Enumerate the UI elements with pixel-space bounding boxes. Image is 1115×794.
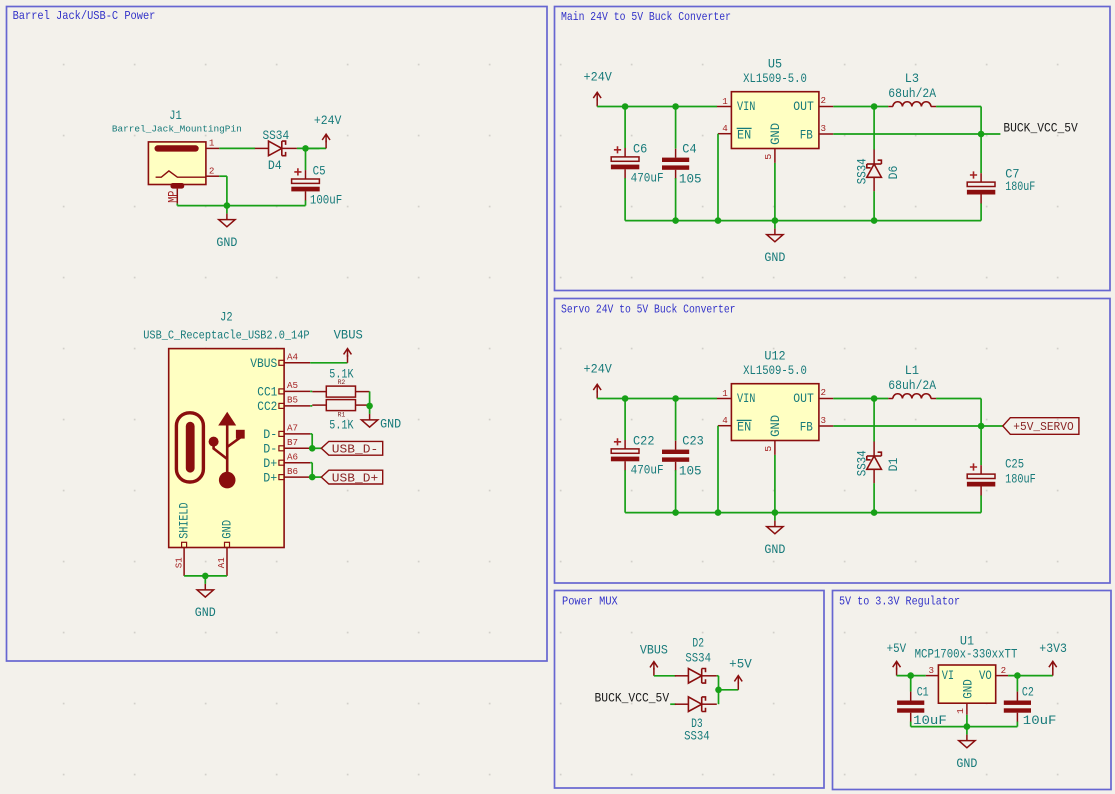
- junction D+: [309, 474, 316, 481]
- svg-text:+24V: +24V: [584, 362, 613, 376]
- J2 pin S1 SHIELD: [182, 542, 187, 547]
- wire inductor to output corner: [936, 106, 981, 108]
- svg-text:2: 2: [1001, 665, 1007, 676]
- svg-text:B5: B5: [287, 395, 298, 406]
- bottom rail reg: [911, 726, 1018, 728]
- svg-text:GND: GND: [216, 236, 237, 250]
- junction C1 top: [907, 672, 914, 679]
- U5 pin 4 EN: [718, 133, 731, 135]
- junction FB/output: [978, 131, 985, 138]
- junction diode D1 bottom: [871, 509, 878, 516]
- junction +5V mux: [715, 687, 722, 694]
- svg-text:MCP1700x-330xxTT: MCP1700x-330xxTT: [915, 648, 1018, 662]
- svg-text:180uF: 180uF: [1005, 180, 1035, 194]
- svg-text:A1: A1: [216, 557, 227, 568]
- wire FB to +5V_SERVO label: [981, 425, 1003, 427]
- svg-text:1: 1: [722, 388, 728, 399]
- svg-text:+5V_SERVO: +5V_SERVO: [1013, 420, 1073, 434]
- svg-text:68uh/2A: 68uh/2A: [888, 379, 936, 393]
- power symbol +24V U5 section: [596, 99, 598, 107]
- svg-text:EN: EN: [737, 421, 751, 435]
- svg-text:+3V3: +3V3: [1039, 642, 1067, 656]
- junction FB/output: [978, 423, 985, 430]
- wire S1-A1 join: [184, 575, 227, 577]
- J2 pin A1 GND: [225, 542, 230, 547]
- svg-text:68uh/2A: 68uh/2A: [888, 87, 936, 101]
- capacitor C2 10uF: [1016, 676, 1018, 692]
- svg-text:4: 4: [722, 123, 728, 134]
- svg-text:XL1509-5.0: XL1509-5.0: [743, 72, 807, 86]
- J1 pin 2: [206, 175, 219, 177]
- wire A7 corner: [310, 433, 312, 435]
- svg-text:U5: U5: [768, 58, 782, 72]
- capacitor C4 105: [675, 107, 677, 149]
- section box: Main 24V to 5V Buck Converter: [555, 7, 1111, 291]
- svg-text:105: 105: [679, 465, 702, 479]
- power symbol VBUS: [347, 355, 349, 363]
- svg-text:B7: B7: [287, 437, 298, 448]
- svg-text:2: 2: [821, 387, 827, 398]
- svg-text:L1: L1: [905, 364, 919, 378]
- bottom rail: [625, 512, 981, 514]
- bottom rail: [625, 220, 981, 222]
- svg-text:1: 1: [209, 138, 215, 149]
- power symbol VBUS mux: [653, 668, 655, 676]
- ground symbol GND J1: [226, 206, 228, 214]
- U1 pin 3 VI: [926, 675, 939, 677]
- svg-text:VBUS: VBUS: [640, 644, 668, 658]
- svg-text:S1: S1: [173, 557, 184, 568]
- svg-text:D2: D2: [692, 637, 704, 651]
- svg-text:BUCK_VCC_5V: BUCK_VCC_5V: [595, 692, 670, 706]
- diode D6 SS34: [873, 107, 875, 150]
- junction diode D6 top: [871, 103, 878, 110]
- J2 pin A4 VBUS: [279, 360, 284, 365]
- svg-text:VBUS: VBUS: [250, 357, 277, 371]
- junction GND bottom: [772, 217, 779, 224]
- section box: Barrel Jack/USB-C Power: [7, 7, 548, 662]
- svg-text:A4: A4: [287, 352, 299, 363]
- junction C_in top: [622, 103, 629, 110]
- svg-text:C23: C23: [682, 434, 704, 448]
- resistor R1 5.1K: [310, 405, 312, 407]
- IC U1 MCP1700x-330xxTT: [938, 665, 995, 703]
- svg-text:C5: C5: [313, 164, 326, 178]
- svg-text:+24V: +24V: [314, 114, 342, 128]
- J2 pin B7 D-: [279, 446, 284, 451]
- U12 pin 3 FB: [819, 425, 833, 427]
- svg-text:USB_D-: USB_D-: [332, 443, 378, 457]
- svg-text:4: 4: [722, 415, 728, 426]
- inductor L3 68uh/2A: [888, 106, 893, 108]
- svg-text:GND: GND: [769, 123, 783, 145]
- svg-text:BUCK_VCC_5V: BUCK_VCC_5V: [1003, 121, 1078, 135]
- svg-text:470uF: 470uF: [631, 171, 664, 185]
- svg-text:GND: GND: [769, 415, 783, 437]
- global label USB_D-: [321, 441, 382, 455]
- wire EN down to rail: [717, 134, 719, 221]
- junction node +24V: [302, 145, 309, 152]
- U12 pin 5 GND: [774, 441, 776, 455]
- svg-text:D4: D4: [268, 159, 282, 173]
- svg-text:VIN: VIN: [737, 100, 755, 114]
- J2 pin A7 D-: [279, 431, 284, 436]
- wire A6 down to B6: [311, 463, 313, 477]
- svg-text:A7: A7: [287, 423, 298, 434]
- J2 pin A6 D+: [279, 460, 284, 465]
- capacitor C7/C25 output: [980, 426, 982, 465]
- wire FB row: [833, 425, 981, 427]
- svg-text:D+: D+: [263, 471, 277, 485]
- wire EN down to rail: [717, 426, 719, 513]
- svg-text:C22: C22: [633, 434, 655, 448]
- U5 pin 1 VIN: [717, 106, 731, 108]
- capacitor C7/C25 output: [980, 134, 982, 173]
- svg-text:D-: D-: [263, 443, 277, 457]
- svg-text:J1: J1: [169, 109, 182, 123]
- junction shield gnd: [202, 573, 209, 580]
- wire pin2 down: [219, 175, 227, 177]
- junction C2 top: [1014, 672, 1021, 679]
- svg-text:2: 2: [821, 95, 827, 106]
- junction EN bottom: [715, 217, 722, 224]
- svg-text:Barrel Jack/USB-C Power: Barrel Jack/USB-C Power: [13, 9, 156, 23]
- svg-text:3: 3: [821, 415, 827, 426]
- svg-text:+5V: +5V: [729, 658, 752, 672]
- wire VBUS pin to power: [310, 362, 347, 364]
- wire inductor to output corner: [936, 398, 981, 400]
- svg-text:C25: C25: [1005, 458, 1024, 472]
- svg-text:SS34: SS34: [684, 729, 710, 743]
- svg-text:5.1K: 5.1K: [329, 419, 354, 433]
- ground symbol GND buck: [774, 221, 776, 229]
- junction R1/R2: [366, 403, 373, 410]
- wire R2 right to R1 right: [369, 391, 371, 406]
- wire +5V to VI: [897, 675, 926, 677]
- U5 pin 5 GND: [774, 149, 776, 163]
- diode D2 SS34: [675, 675, 689, 677]
- global label +5V_SERVO: [1003, 418, 1079, 435]
- svg-text:SHIELD: SHIELD: [178, 503, 192, 539]
- svg-text:C1: C1: [917, 686, 929, 700]
- svg-text:Servo 24V to 5V Buck Converter: Servo 24V to 5V Buck Converter: [561, 302, 736, 316]
- svg-text:FB: FB: [800, 129, 814, 143]
- resistor R2 5.1K: [310, 390, 312, 392]
- svg-text:J2: J2: [220, 311, 233, 325]
- svg-text:CC1: CC1: [257, 386, 277, 400]
- svg-text:Barrel_Jack_MountingPin: Barrel_Jack_MountingPin: [112, 123, 242, 134]
- svg-text:C2: C2: [1022, 686, 1034, 700]
- svg-text:SS34: SS34: [685, 651, 711, 665]
- wire VBUS to D2: [654, 675, 676, 677]
- svg-text:+24V: +24V: [584, 70, 613, 84]
- svg-text:5: 5: [763, 446, 774, 452]
- svg-text:L3: L3: [905, 72, 919, 86]
- ground symbol GND reg: [966, 727, 968, 735]
- power symbol +5V reg: [896, 668, 898, 676]
- svg-text:VI: VI: [942, 669, 954, 683]
- wire MP to ground rail: [176, 204, 178, 206]
- U12 pin 2 OUT: [819, 398, 833, 400]
- power symbol +5V mux: [737, 682, 739, 690]
- J1 pin MP: [176, 189, 178, 204]
- svg-text:SS34: SS34: [855, 158, 869, 184]
- wire GND pin down: [774, 163, 776, 221]
- wire FB to label: [981, 133, 1000, 135]
- inductor L1 68uh/2A: [888, 398, 893, 400]
- svg-text:A5: A5: [287, 380, 298, 391]
- svg-text:FB: FB: [800, 421, 814, 435]
- J1 pin 1: [206, 147, 219, 149]
- svg-text:470uF: 470uF: [631, 463, 664, 477]
- junction GND bottom: [772, 509, 779, 516]
- svg-text:C6: C6: [633, 142, 647, 156]
- svg-text:GND: GND: [380, 418, 401, 432]
- svg-text:OUT: OUT: [793, 100, 814, 114]
- section box: Servo 24V to 5V Buck Converter: [555, 299, 1111, 584]
- diode D4 SS34: [255, 147, 269, 149]
- ground symbol GND buck: [774, 513, 776, 521]
- wire OUT to inductor: [833, 398, 888, 400]
- connector J2 USB_C_Receptacle_USB2.0_14P: [169, 349, 284, 548]
- svg-text:1: 1: [722, 96, 728, 107]
- junction ground node: [224, 202, 231, 209]
- svg-text:105: 105: [679, 173, 702, 187]
- U12 pin 4 EN: [718, 425, 731, 427]
- svg-text:3: 3: [928, 665, 934, 676]
- svg-text:100uF: 100uF: [310, 193, 342, 207]
- ground symbol GND J2: [204, 576, 206, 584]
- junction C_np bottom: [672, 509, 679, 516]
- svg-text:180uF: 180uF: [1005, 473, 1036, 487]
- svg-text:VO: VO: [979, 669, 992, 683]
- wire GND pin down: [774, 455, 776, 513]
- svg-text:10uF: 10uF: [1023, 714, 1057, 728]
- svg-text:VIN: VIN: [737, 392, 755, 406]
- svg-text:D+: D+: [263, 457, 277, 471]
- U12 pin 1 VIN: [717, 398, 731, 400]
- wire pin1 to diode D4: [219, 147, 255, 149]
- svg-text:5: 5: [763, 154, 774, 160]
- IC U12 XL1509-5.0: [731, 384, 819, 441]
- svg-text:3: 3: [821, 123, 827, 134]
- diode D1 SS34: [873, 399, 875, 442]
- section box: Power MUX: [555, 591, 825, 789]
- svg-text:U12: U12: [764, 350, 785, 364]
- svg-text:A6: A6: [287, 452, 298, 463]
- wire D2 to +5V node: [717, 675, 719, 677]
- junction C_in top: [622, 395, 629, 402]
- wire FB row: [833, 133, 981, 135]
- junction C_np top: [672, 395, 679, 402]
- J2 pin B5 CC2: [279, 403, 284, 408]
- wire to USB_D- label: [312, 447, 321, 449]
- svg-text:USB_D+: USB_D+: [332, 471, 378, 485]
- svg-text:OUT: OUT: [793, 392, 814, 406]
- svg-text:U1: U1: [960, 635, 974, 649]
- wire D4 to +24V node: [297, 147, 320, 149]
- wire VO to +3V3: [1008, 675, 1053, 677]
- junction diode D1 top: [871, 395, 878, 402]
- svg-text:Power MUX: Power MUX: [562, 595, 618, 609]
- svg-text:B6: B6: [287, 466, 298, 477]
- U1 pin 2 VO: [996, 675, 1008, 677]
- junction D-: [309, 445, 316, 452]
- U1 pin 1 GND: [966, 703, 968, 715]
- junction EN bottom: [715, 509, 722, 516]
- power symbol +24V U12 section: [596, 391, 598, 399]
- svg-text:SS34: SS34: [855, 450, 869, 476]
- wire OUT to inductor: [833, 106, 888, 108]
- J2 USB trident icon: [209, 412, 245, 489]
- svg-text:D-: D-: [263, 428, 277, 442]
- svg-text:GND: GND: [961, 679, 975, 699]
- wire C5 to ground rail: [305, 200, 307, 205]
- IC U5 XL1509-5.0: [731, 92, 819, 149]
- connector J1 Barrel_Jack_MountingPin: [148, 142, 206, 185]
- svg-text:C4: C4: [682, 142, 696, 156]
- J2 pin B6 D+: [279, 475, 284, 480]
- junction gnd reg: [964, 723, 971, 730]
- svg-text:GND: GND: [220, 520, 234, 539]
- svg-text:GND: GND: [764, 251, 785, 265]
- J2 USB-C pill icon: [176, 413, 203, 482]
- svg-text:+5V: +5V: [887, 642, 907, 656]
- U5 pin 3 FB: [819, 133, 833, 135]
- junction C_np bottom: [672, 217, 679, 224]
- wire A6 corner: [310, 462, 312, 464]
- wire junction to +5V arrow: [719, 689, 739, 691]
- svg-text:1: 1: [955, 707, 966, 714]
- global label USB_D+: [321, 470, 382, 484]
- svg-text:SS34: SS34: [262, 129, 289, 143]
- svg-text:GND: GND: [764, 543, 785, 557]
- junction C_np top: [672, 103, 679, 110]
- svg-text:EN: EN: [737, 129, 751, 143]
- wire label to D3: [670, 703, 676, 705]
- capacitor C23 105: [675, 399, 677, 441]
- diode D3 SS34: [675, 703, 689, 705]
- svg-text:XL1509-5.0: XL1509-5.0: [743, 364, 807, 378]
- wire A7 down to B7: [311, 434, 313, 448]
- svg-text:GND: GND: [956, 757, 977, 771]
- svg-text:VBUS: VBUS: [334, 328, 363, 342]
- svg-text:Main 24V to 5V Buck Converter: Main 24V to 5V Buck Converter: [561, 10, 731, 24]
- capacitor C1 10uF: [910, 676, 912, 692]
- svg-text:R2: R2: [338, 379, 346, 386]
- svg-text:R1: R1: [338, 412, 346, 419]
- svg-text:5V to 3.3V Regulator: 5V to 3.3V Regulator: [839, 595, 960, 609]
- capacitor C6 470uF: [624, 107, 626, 149]
- J2 pin A5 CC1: [279, 389, 284, 394]
- svg-text:USB_C_Receptacle_USB2.0_14P: USB_C_Receptacle_USB2.0_14P: [143, 328, 309, 342]
- svg-text:GND: GND: [195, 606, 216, 620]
- power symbol +24V: [306, 147, 327, 149]
- ground symbol GND resistors: [369, 405, 371, 407]
- wire +24V rail: [597, 106, 717, 108]
- power symbol +3V3: [1052, 668, 1054, 676]
- junction diode D6 bottom: [871, 217, 878, 224]
- svg-text:CC2: CC2: [257, 400, 277, 414]
- svg-text:2: 2: [209, 166, 215, 177]
- wire +24V rail: [597, 398, 717, 400]
- section box: 5V to 3.3V Regulator: [833, 591, 1112, 790]
- svg-text:MP: MP: [166, 191, 180, 203]
- wire junction down to C5: [305, 148, 307, 170]
- capacitor C5 100uF: [305, 170, 307, 179]
- U5 pin 2 OUT: [819, 106, 833, 108]
- capacitor C22 470uF: [624, 399, 626, 441]
- wire to USB_D+ label: [312, 476, 321, 478]
- svg-text:D6: D6: [887, 166, 901, 180]
- wire U1 gnd pin to rail: [966, 715, 968, 727]
- svg-text:D1: D1: [887, 458, 901, 472]
